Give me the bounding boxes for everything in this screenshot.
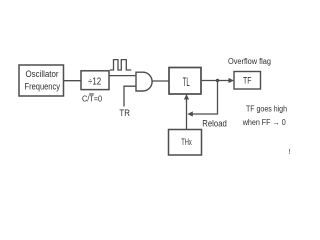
svg-text:÷12: ÷12 <box>88 77 102 88</box>
label THx <box>181 137 192 147</box>
arrowhead into TL bottom <box>184 94 189 100</box>
svg-text:THx: THx <box>181 137 192 147</box>
wire AND output to TL <box>152 80 169 82</box>
overflow flag register TF <box>234 72 261 90</box>
svg-text:when FF → 0: when FF → 0 <box>242 118 286 127</box>
label Reload <box>202 119 227 129</box>
arrowhead into TF <box>229 78 235 83</box>
faint artifact mark <box>289 149 291 156</box>
label TL <box>183 77 191 89</box>
divide-by-12 block <box>81 71 109 90</box>
wire TR to AND gate lower input <box>124 86 136 106</box>
svg-text:TF goes high: TF goes high <box>246 105 287 114</box>
label TR <box>119 108 130 119</box>
label divide by 12 <box>88 77 102 88</box>
label TF <box>243 75 252 86</box>
clock waveform symbol <box>110 60 132 70</box>
label C/T=0 with overline <box>82 93 102 103</box>
svg-text:C/T=0: C/T=0 <box>82 93 102 103</box>
arrowhead reload into vertical wire <box>187 111 193 116</box>
junction node <box>216 79 219 82</box>
svg-text:TL: TL <box>183 77 191 89</box>
label Oscillator Frequency <box>25 69 61 92</box>
svg-text:TR: TR <box>119 108 130 119</box>
svg-text:Reload: Reload <box>202 119 227 129</box>
svg-text:Oscillator: Oscillator <box>26 69 59 79</box>
label Overflow flag <box>228 57 271 66</box>
oscillator frequency block <box>19 65 64 96</box>
svg-text:Frequency: Frequency <box>25 82 61 92</box>
AND gate <box>136 72 152 91</box>
svg-text:Overflow flag: Overflow flag <box>228 57 271 66</box>
wire oscillator to divider <box>64 80 82 82</box>
note TF goes high when FF goes to 0 <box>242 105 287 127</box>
wire TL to TF with junction <box>201 80 231 82</box>
timer high register THx <box>169 130 202 156</box>
wire divider to AND gate <box>109 75 136 77</box>
timer low register TL <box>169 68 201 95</box>
svg-text:TF: TF <box>243 75 252 86</box>
wire THx up to TL <box>186 97 188 130</box>
svg-text:!: ! <box>289 149 291 156</box>
reload feedback wire <box>192 81 218 115</box>
